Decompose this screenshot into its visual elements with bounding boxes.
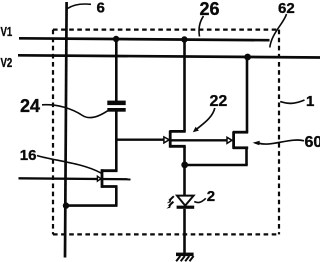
- svg-text:6: 6: [97, 0, 105, 17]
- LED 2 anode wire: [183, 165, 186, 196]
- transistor 16 channel bar: [101, 169, 104, 188]
- transistor 16 gate arrowhead: [97, 176, 101, 181]
- wire: gate line from capacitor node to transistor 22: [116, 139, 165, 141]
- transistor 16 drain jog: [101, 169, 117, 172]
- wire: transistor 60 source down: [245, 148, 248, 165]
- wire: transistor 16 source down: [115, 187, 118, 206]
- leader line for 60 (with arrowhead): [259, 140, 304, 144]
- transistor 60 drain jog: [233, 131, 248, 134]
- svg-text:V1: V1: [1, 26, 13, 40]
- LED 2 triangle: [177, 196, 194, 206]
- leader line for 22 (with arrowhead): [197, 108, 215, 129]
- leader line for 26: [199, 16, 204, 37]
- leader line for 62: [270, 14, 287, 48]
- svg-text:26: 26: [200, 0, 220, 19]
- capacitor 24 bottom plate: [107, 108, 125, 112]
- transistor 22 gate arrowhead: [164, 137, 169, 143]
- junction node: transistor 60 drain on V2: [244, 54, 251, 61]
- wire: transistor 16 source to data line 6: [66, 204, 118, 207]
- transistor 22 source jog: [170, 145, 186, 148]
- transistor 60 gate arrowhead: [227, 137, 232, 143]
- svg-text:1: 1: [306, 93, 314, 110]
- svg-text:60: 60: [305, 134, 320, 151]
- svg-text:22: 22: [210, 93, 228, 110]
- transistor 60 source jog: [233, 146, 248, 149]
- leader line for 6: [68, 4, 92, 9]
- wire: LED cathode to ground: [183, 209, 186, 254]
- wire: transistor 22 drain to V1: [183, 40, 186, 132]
- dashed pixel boundary box 62/1: [53, 30, 279, 235]
- transistor 22 channel bar: [169, 131, 172, 148]
- LED 2 emission arrow a: [169, 196, 174, 200]
- LED 2 cathode bar: [177, 206, 195, 209]
- wire: V2 supply line: [18, 55, 320, 57]
- wire: gate line through to transistor 60: [171, 139, 228, 141]
- capacitor 24 top plate: [107, 101, 125, 106]
- junction node: transistor 22 drain on V1: [181, 36, 187, 42]
- junction node: LED anode node: [181, 162, 188, 169]
- wire: capacitor branch from V1: [115, 39, 118, 101]
- wire: capacitor bottom to transistor 16 drain: [115, 112, 118, 172]
- wire: scan line (transistor 16 gate): [19, 178, 131, 179]
- wire: transistor 60 drain to V2: [246, 57, 249, 132]
- transistor 16 source jog: [101, 185, 117, 188]
- junction node: transistor 16 source on data line 6: [63, 202, 69, 208]
- svg-text:2: 2: [207, 188, 215, 205]
- leader line for 1: [280, 100, 304, 103]
- svg-text:16: 16: [20, 147, 37, 164]
- leader line for 24: [42, 105, 108, 118]
- wire: transistor 22 source down to node: [183, 146, 186, 165]
- transistor 22 drain jog: [170, 130, 186, 133]
- wire: data line 6 (vertical): [65, 2, 67, 258]
- ground symbol bar: [176, 253, 194, 257]
- svg-text:62: 62: [278, 0, 295, 17]
- transistor 60 channel bar: [232, 131, 235, 148]
- leader line for 2: [194, 198, 206, 202]
- leader line for 16: [37, 156, 101, 174]
- wire: node connector from transistor 60 source to LED node: [185, 164, 248, 167]
- LED 2 emission arrow b: [169, 202, 174, 206]
- ground symbol hatches: [176, 256, 193, 261]
- wire: V1 supply line: [19, 38, 270, 40]
- junction node: capacitor branch on V1: [113, 36, 119, 42]
- svg-text:V2: V2: [1, 57, 13, 71]
- svg-text:24: 24: [20, 96, 40, 116]
